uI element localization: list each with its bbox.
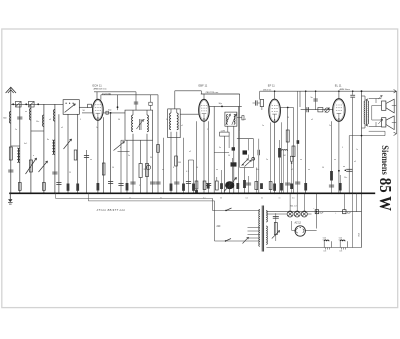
coil L1	[9, 112, 10, 124]
IF transformer T1 can	[125, 110, 153, 140]
tap selector arrow	[243, 237, 249, 243]
capacitor C27	[329, 184, 334, 186]
capacitor C31	[134, 101, 138, 103]
wire speaker bottom boundary	[369, 130, 385, 132]
capacitor C21	[285, 182, 290, 184]
output transformer T4 secondary	[367, 99, 369, 102]
capacitor C32	[150, 95, 152, 102]
svg-text:3n: 3n	[219, 147, 221, 149]
svg-text:n2: n2	[189, 151, 191, 153]
resistor R9	[126, 183, 129, 191]
antenna	[6, 87, 16, 93]
svg-text:50n: 50n	[256, 169, 259, 171]
svg-text:1n: 1n	[262, 125, 264, 127]
svg-text:Skl. Lm: Skl. Lm	[290, 205, 297, 207]
svg-text:Siemens: Siemens	[380, 145, 390, 175]
svg-text:nn: nn	[279, 198, 281, 200]
coil L3	[29, 109, 30, 121]
wire V3 screen top	[259, 91, 261, 99]
wire drop x20	[19, 104, 21, 193]
wire drop x121	[120, 140, 122, 193]
IF transformer T2 can	[168, 109, 181, 138]
resistor R3	[67, 184, 70, 191]
wire drop x58	[58, 114, 60, 193]
tube V2 EBF11	[199, 99, 210, 121]
wire speaker mid links	[371, 106, 373, 121]
svg-text:30: 30	[118, 119, 120, 121]
svg-text:n1: n1	[181, 125, 183, 127]
svg-text:nn: nn	[143, 119, 145, 121]
svg-text:n: n	[120, 147, 121, 149]
svg-text:452/LMA: 452/LMA	[102, 92, 111, 95]
wire T3b drop	[233, 126, 235, 193]
svg-text:5n: 5n	[128, 155, 130, 157]
svg-text:50n: 50n	[36, 121, 39, 123]
wire top bus right	[260, 90, 397, 92]
matching arrow 2	[378, 119, 382, 124]
wire drop x281.5	[281, 122, 283, 193]
mains switch S5b	[226, 239, 232, 242]
wire drop x44	[43, 104, 45, 193]
wire HT top	[266, 211, 361, 213]
wire V1 cathode drop	[97, 120, 99, 193]
svg-text:30: 30	[150, 157, 152, 159]
wire drop x331.5	[331, 121, 333, 193]
wire drop x11	[10, 104, 12, 193]
resistor R24	[280, 183, 283, 191]
svg-text:50: 50	[228, 155, 230, 157]
mains switch S5a	[226, 208, 232, 211]
capacitor C37 mark	[297, 140, 300, 144]
svg-text:20n: 20n	[344, 177, 347, 179]
capacitor C34	[207, 183, 210, 188]
core T5	[261, 206, 263, 252]
svg-text:8μF: 8μF	[347, 212, 351, 214]
svg-text:2n: 2n	[266, 159, 268, 161]
resistor R28	[330, 171, 333, 181]
resistor R10	[139, 164, 142, 178]
capacitor C16	[195, 181, 198, 189]
resistor R5	[74, 150, 77, 160]
resistor R26	[318, 108, 323, 112]
ground bus	[9, 192, 375, 194]
loudspeaker LS1	[382, 101, 386, 110]
resistor R15	[203, 181, 206, 190]
wire mains 1	[212, 198, 214, 210]
capacitor C10	[118, 183, 123, 185]
svg-text:AZ 12: AZ 12	[295, 221, 302, 224]
resistor R21	[273, 184, 276, 191]
switch S1b	[26, 158, 37, 174]
resistor R25	[304, 183, 307, 191]
switch S1a	[39, 161, 48, 172]
capacitor C12	[150, 181, 155, 183]
svg-text:5n: 5n	[261, 198, 263, 200]
svg-text:0.1: 0.1	[186, 171, 189, 173]
capacitor C7	[106, 111, 109, 114]
wire drop x352.7	[352, 91, 354, 95]
svg-text:nn: nn	[308, 169, 310, 171]
output transformer T4 primary	[364, 96, 366, 101]
wire V2 cathode	[203, 121, 205, 193]
svg-text:0n1: 0n1	[24, 143, 27, 145]
svg-text:50: 50	[112, 167, 114, 169]
wire drop x248	[248, 139, 250, 151]
core T1	[138, 119, 140, 130]
svg-text:2n: 2n	[15, 129, 17, 131]
svg-text:0.3: 0.3	[340, 250, 343, 252]
wire drop x163.5	[163, 138, 165, 194]
wire band switch to tube	[79, 106, 87, 108]
svg-text:50: 50	[196, 167, 198, 169]
wire lamp drops from bus	[289, 193, 291, 211]
wire drop x229	[228, 136, 230, 148]
resistor R31	[43, 183, 46, 191]
svg-text:nn: nn	[343, 166, 345, 168]
power transformer taps	[248, 227, 260, 229]
wire V5 cathode	[305, 230, 316, 232]
capacitor C3	[52, 171, 57, 173]
wire V2 grid	[180, 113, 199, 115]
wire T2b drop	[176, 132, 178, 194]
wire top bus H2	[101, 94, 158, 96]
capacitor C18 block	[243, 150, 248, 154]
components cluster x183-197	[183, 138, 185, 194]
trimmer C25	[325, 108, 329, 112]
resistor R2	[29, 160, 32, 172]
tube V4 EL11	[333, 99, 345, 122]
wire T1b drop	[146, 134, 148, 194]
svg-text:0n5: 0n5	[323, 240, 326, 242]
svg-text:5: 5	[342, 147, 343, 149]
svg-text:1M: 1M	[283, 155, 286, 157]
wire B+ drop x361.5	[361, 91, 363, 247]
wire V4 cathode	[338, 121, 340, 193]
wire sub bus 1	[56, 197, 213, 199]
resistor R17	[236, 183, 239, 189]
coil L6	[53, 140, 54, 155]
svg-text:25: 25	[69, 172, 71, 174]
capacitor C13	[174, 181, 179, 183]
capacitor C2	[17, 116, 22, 118]
svg-text:85 W: 85 W	[376, 178, 395, 211]
trimmer capacitor A2	[29, 101, 35, 107]
svg-text:2M: 2M	[144, 169, 147, 171]
coil T1a	[132, 110, 134, 115]
coil T1b	[146, 110, 148, 115]
lamp indicator small	[252, 157, 255, 160]
capacitor C6	[84, 155, 89, 157]
wire V1 grid line	[82, 112, 93, 114]
svg-text:0,5: 0,5	[292, 198, 295, 200]
dial lamp LP1	[287, 211, 293, 217]
svg-text:5: 5	[139, 185, 140, 187]
wire drop x31	[30, 104, 32, 193]
capacitor C28	[346, 168, 352, 170]
capacitor C8	[108, 181, 113, 183]
coil L2	[18, 148, 19, 163]
coil L6b	[52, 140, 53, 155]
resistor R30	[18, 183, 21, 191]
resistor R20	[260, 100, 263, 107]
svg-text:nn: nn	[334, 159, 336, 161]
wire drop x293.5	[293, 108, 295, 194]
wire x352.7 below bus	[352, 193, 354, 247]
svg-text:50: 50	[322, 167, 324, 169]
wire x356.7 drop	[356, 193, 358, 211]
wire drop x199	[196, 121, 198, 193]
capacitor C36	[290, 156, 293, 161]
resistor R27	[339, 183, 342, 191]
wire drop x117.5	[117, 95, 119, 110]
svg-text:nn: nn	[300, 159, 302, 161]
wire drop x287.7	[287, 108, 289, 194]
svg-text:nn: nn	[162, 169, 164, 171]
dial lamp LP2	[294, 211, 300, 217]
wire loop S4	[239, 131, 241, 167]
wire drop x238.3	[237, 106, 239, 193]
coil T3b	[234, 114, 235, 124]
loudspeaker LS2	[382, 118, 386, 127]
wire top bus H1b	[175, 90, 202, 92]
switch S4 contacts	[242, 159, 249, 166]
svg-text:n: n	[33, 155, 34, 157]
svg-text:ZBL/nnn: ZBL/nnn	[263, 90, 272, 92]
near-bus extras right	[255, 182, 258, 190]
svg-text:2n: 2n	[329, 125, 331, 127]
coil T2a	[170, 109, 172, 113]
wire V5 anode	[292, 229, 296, 231]
svg-text:nn: nn	[216, 169, 218, 171]
wire drop x270	[270, 122, 272, 193]
wire V4 input chain	[301, 109, 333, 111]
wire speaker common right	[395, 91, 397, 134]
wire speaker loop top	[369, 98, 382, 100]
matching arrow 1	[378, 95, 382, 99]
resistor R7	[102, 163, 105, 175]
svg-text:8: 8	[173, 167, 174, 169]
wire link y146	[11, 145, 20, 147]
IF transformer T3 can	[225, 112, 237, 126]
power transformer T5 primary	[259, 210, 260, 247]
wire link y152	[214, 152, 229, 154]
resistor R1	[9, 147, 12, 160]
wire V2 plate	[209, 105, 242, 107]
power transformer T5 secondary	[266, 211, 267, 223]
wire drop x349.2	[348, 136, 350, 194]
svg-text:50: 50	[287, 117, 289, 119]
band switch S2	[63, 100, 79, 115]
svg-text:1M: 1M	[178, 162, 181, 164]
capacitor C18b	[257, 150, 259, 156]
svg-text:ARN/228 nnn: ARN/228 nnn	[94, 87, 108, 90]
wire V1 anode top	[96, 92, 98, 100]
svg-text:5: 5	[80, 119, 81, 121]
svg-text:EBF 11: EBF 11	[199, 84, 208, 88]
resistor R6	[97, 183, 100, 191]
resistor R23	[292, 146, 295, 157]
capacitor C5	[56, 182, 61, 184]
wire mains 2	[214, 201, 216, 241]
svg-text:50: 50	[220, 198, 222, 200]
wire heater bottom	[266, 247, 361, 249]
small dark mark x233	[232, 147, 235, 150]
tube V1 ECH11	[93, 99, 104, 120]
resistor R4	[76, 184, 79, 191]
capacitor C14	[155, 181, 160, 183]
capacitor C17	[242, 116, 244, 120]
svg-text:n5: n5	[354, 161, 356, 163]
wire drop x243.5	[244, 168, 246, 194]
wire drop x140.6	[140, 140, 142, 163]
wire T2a drop	[170, 132, 172, 194]
svg-text:EL 11: EL 11	[335, 83, 342, 87]
core T4	[365, 99, 367, 126]
capacitor C1	[8, 169, 13, 171]
filter capacitor C30 8uF	[343, 210, 346, 214]
capacitor C35	[220, 183, 223, 189]
capacitor C23	[295, 181, 300, 183]
svg-text:ECH 11: ECH 11	[93, 83, 103, 87]
wire drop x208.6	[208, 121, 210, 193]
wire drop x158	[157, 95, 159, 153]
wire drop x110.6	[110, 113, 112, 193]
svg-text:8μF: 8μF	[320, 212, 324, 214]
wire drop x104	[103, 118, 105, 194]
wire drop x77.7	[77, 114, 79, 193]
wire T3a drop	[227, 126, 229, 132]
coil T2b	[176, 109, 178, 113]
coil L2b	[17, 148, 18, 163]
tube V3 EF11	[269, 99, 281, 122]
svg-text:ZBV/228 nnn: ZBV/228 nnn	[206, 92, 220, 94]
svg-text:JT=nn 88/477 nnn: JT=nn 88/477 nnn	[97, 208, 126, 212]
dial lamp LP3	[301, 211, 307, 217]
choke Dr2	[339, 241, 341, 247]
svg-text:5n: 5n	[166, 119, 168, 121]
wire link y131	[31, 130, 44, 132]
svg-text:1n: 1n	[356, 149, 358, 151]
svg-text:n5: n5	[311, 119, 313, 121]
wire drop x152.6	[152, 140, 154, 193]
potentiometer P1	[225, 181, 234, 189]
resistor R19 slug	[278, 148, 281, 158]
rectifier tube V5 AZ12	[295, 226, 305, 236]
ground symbol	[9, 193, 11, 199]
wire speaker loop bottom	[369, 126, 382, 128]
resistor R14	[215, 181, 218, 190]
capacitor C19	[246, 182, 251, 184]
svg-text:ARN Nnnn: ARN Nnnn	[340, 88, 351, 91]
choke Dr1	[323, 241, 325, 247]
capacitor C33 electrolytic	[231, 162, 237, 166]
resistor R16 1.2M	[220, 132, 230, 136]
grid capacitor C4	[88, 104, 92, 107]
resistor R11	[170, 184, 173, 191]
wire H y135.6	[349, 135, 385, 137]
capacitor C15	[206, 183, 211, 185]
wire sub bus 2	[88, 200, 214, 202]
trimmer arrows T1	[137, 120, 144, 130]
svg-text:n8: n8	[244, 119, 246, 121]
coil L5	[53, 110, 54, 122]
wire H2 corner	[100, 95, 102, 100]
resistor R12	[157, 145, 160, 153]
resistor R18	[243, 180, 246, 188]
svg-text:2: 2	[207, 129, 208, 131]
switch S2b	[64, 139, 72, 149]
secondary components	[275, 213, 277, 241]
capacitor C9	[130, 181, 135, 183]
svg-text:n3: n3	[49, 119, 51, 121]
capacitor C26	[315, 91, 317, 110]
wire input H	[11, 103, 63, 105]
svg-text:1.2M: 1.2M	[221, 130, 226, 132]
svg-text:0n5: 0n5	[339, 240, 342, 242]
svg-text:1n: 1n	[96, 127, 98, 129]
svg-text:n2: n2	[291, 169, 293, 171]
coil T3a	[227, 114, 228, 124]
capacitor C24	[306, 107, 308, 112]
capacitor C11	[146, 165, 150, 169]
svg-text:5n: 5n	[311, 97, 313, 99]
resistor R8	[146, 164, 149, 177]
svg-text:8n: 8n	[47, 139, 49, 141]
svg-text:0.3: 0.3	[324, 250, 327, 252]
wire heater lamps	[266, 213, 283, 215]
wire drop x68	[67, 114, 69, 193]
trimmer capacitor A1	[16, 101, 22, 107]
wire V1 plate right	[103, 112, 125, 114]
wire drop x127	[126, 140, 128, 193]
coil L4	[42, 115, 43, 127]
svg-text:nn: nn	[90, 159, 92, 161]
svg-text:EF 11: EF 11	[268, 84, 275, 88]
resistor R22	[286, 130, 289, 142]
svg-text:nn: nn	[25, 111, 27, 113]
svg-text:n5: n5	[61, 127, 63, 129]
wire drop x55	[54, 104, 56, 193]
wire top bus H1a	[94, 91, 136, 93]
resistor R13	[175, 156, 178, 166]
svg-text:0,1: 0,1	[246, 198, 249, 200]
filter capacitor C29 8uF	[315, 210, 318, 214]
wire V3 cathode	[274, 122, 276, 193]
wire V2 screen top	[201, 93, 240, 95]
wire drop x297.7	[297, 92, 299, 194]
wire drop x305.7 long	[305, 91, 307, 193]
capacitor C20	[255, 100, 257, 105]
wire drop x214.2	[213, 106, 215, 193]
wire T1a drop	[132, 134, 134, 194]
choke Dr3	[281, 150, 287, 151]
wire V3 plate right	[280, 107, 293, 109]
switch S3	[114, 142, 125, 151]
